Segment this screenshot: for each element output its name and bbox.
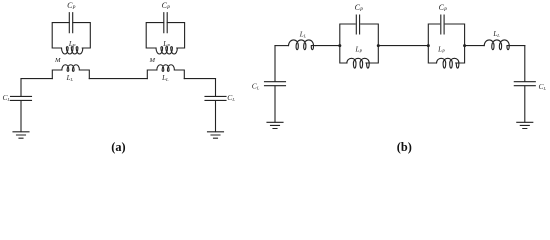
svg-text:LP: LP: [162, 40, 170, 48]
wire: (b) left corner to first coil: [275, 45, 289, 47]
wire: (a) left shunt branch lower: [20, 101, 22, 132]
inductor LL1 (series coupled inductor, 3 bumps up): [62, 65, 80, 72]
svg-text:LP: LP: [437, 46, 445, 54]
svg-text:CL: CL: [227, 93, 235, 102]
inductor LP1 (tank coil, 4 bumps down): [62, 47, 83, 54]
inductor LPb1 (tank coil on bottom edge): [347, 58, 369, 68]
wire: box1 to box2: [378, 45, 428, 47]
inductor LLb2 (series inductor of (b), 3 bumps with loops): [484, 40, 509, 50]
capacitor CL1 (left shunt cap): [11, 96, 32, 100]
ground (a) left: [13, 132, 29, 138]
wire: (a) left node to first step: [21, 78, 52, 80]
capacitor CP2 (vertical plates in top edge): [164, 13, 167, 33]
svg-text:LL: LL: [492, 30, 500, 38]
wire: (a) right segment: [184, 78, 215, 80]
wire: LL2 right lead and step down: [174, 70, 184, 79]
ground (b) left: [267, 122, 283, 128]
ground (b) right: [517, 122, 533, 128]
node: box1 left junction dot: [338, 44, 341, 47]
svg-text:LP: LP: [68, 40, 76, 48]
capacitor CPb1 (vertical plates in top edge): [356, 15, 359, 34]
svg-text:LL: LL: [161, 74, 169, 82]
svg-text:CP: CP: [355, 3, 363, 13]
svg-text:CP: CP: [439, 3, 447, 13]
wire: (a) right shunt branch lower: [215, 101, 217, 132]
svg-text:(a): (a): [111, 140, 125, 154]
inductor LL2 (series coupled inductor, 3 bumps up): [157, 65, 175, 72]
wire: (a) left shunt branch upper: [20, 79, 22, 97]
svg-text:LL: LL: [66, 74, 74, 82]
wire: LL1 right lead and step down: [79, 70, 89, 79]
wire: (b) left shunt branch upper: [274, 46, 276, 82]
ground (a) right: [208, 132, 224, 138]
node: box2 right junction dot: [463, 44, 466, 47]
node: box2 left junction dot: [427, 44, 430, 47]
svg-text:(b): (b): [397, 140, 412, 154]
resonator box 2 of (a): enclosure wires: [146, 23, 184, 48]
resonator box 2 of (b): enclosure wires: [428, 24, 464, 63]
wire: (b) right shunt branch upper: [524, 46, 526, 82]
capacitor CPb2 (vertical plates in top edge): [441, 15, 444, 34]
capacitor CP1 (vertical plates in top edge): [69, 13, 72, 33]
capacitor CLb1 (left shunt cap of (b)): [265, 82, 286, 86]
svg-text:CP: CP: [67, 1, 75, 11]
inductor LPb2 (tank coil on bottom edge): [437, 58, 459, 68]
svg-text:CL: CL: [539, 82, 547, 91]
resonator box 1 of (a): enclosure wires: [52, 23, 90, 48]
svg-text:M: M: [148, 57, 155, 64]
wire: center segment of (a): [89, 78, 147, 80]
wire: (b) right shunt branch lower: [524, 86, 526, 122]
svg-text:LL: LL: [299, 30, 307, 38]
resonator box 1 of (b): enclosure wires: [340, 24, 379, 63]
svg-text:LP: LP: [354, 46, 362, 54]
wire: (b) left shunt branch lower: [274, 86, 276, 122]
svg-text:CL: CL: [252, 81, 260, 90]
wire: step up left of LL2: [147, 70, 157, 79]
wire: step up left of LL1: [52, 70, 62, 79]
wire: second coil to right corner: [510, 45, 525, 47]
wire: first coil to box1: [316, 45, 340, 47]
svg-text:CL: CL: [3, 93, 11, 102]
wire: (a) right shunt branch upper: [215, 79, 217, 97]
capacitor CL2 (right shunt cap): [205, 96, 226, 100]
wire: box2 to second coil: [465, 45, 485, 47]
inductor LLb1 (series inductor of (b), 3 bumps with loops): [289, 40, 316, 50]
inductor LP2 (tank coil, 4 bumps down): [156, 47, 177, 54]
node: box1 right junction dot: [377, 44, 380, 47]
svg-text:CP: CP: [162, 1, 170, 11]
capacitor CLb2 (right shunt cap of (b)): [514, 82, 535, 86]
svg-text:M: M: [54, 57, 61, 64]
